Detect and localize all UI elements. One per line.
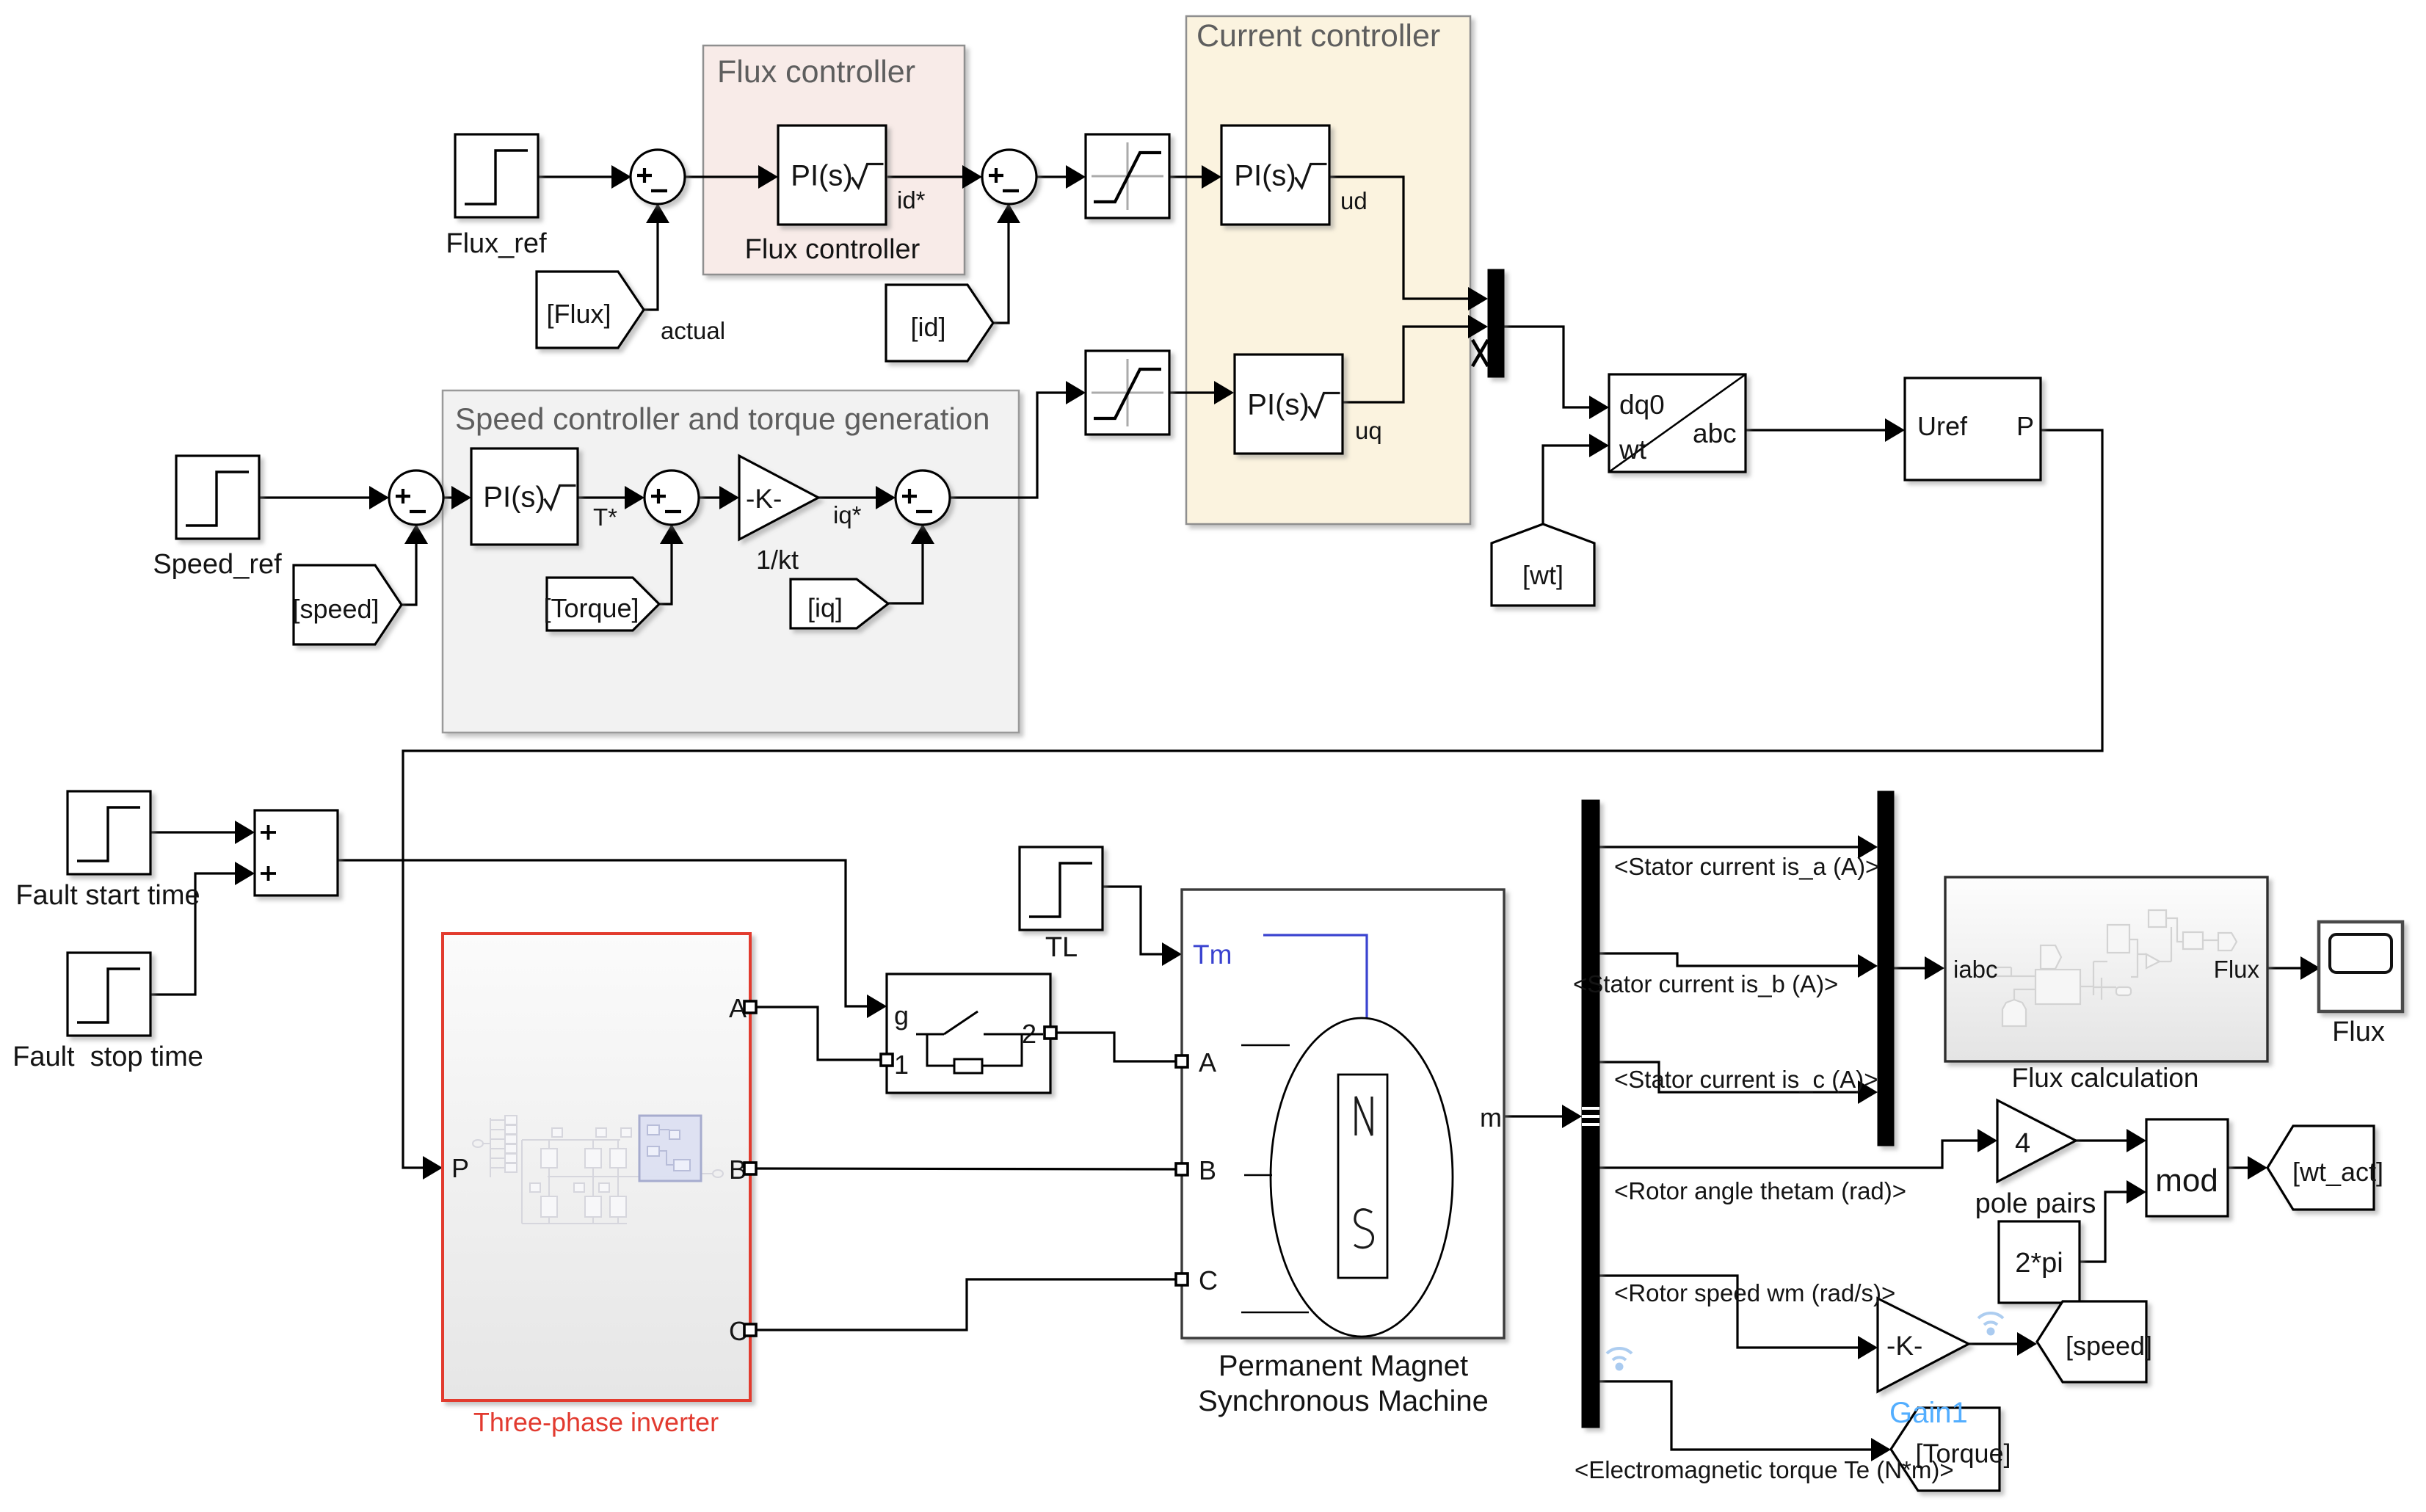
svg-text:id*: id* (897, 186, 926, 214)
svg-text:Flux calculation: Flux calculation (2011, 1063, 2198, 1093)
svg-text:Speed_ref: Speed_ref (153, 549, 282, 580)
svg-text:mod: mod (2155, 1163, 2218, 1199)
svg-text:[iq]: [iq] (807, 593, 843, 623)
svg-text:[wt_act]: [wt_act] (2292, 1157, 2383, 1187)
svg-text:dq0: dq0 (1619, 390, 1665, 420)
svg-text:iq*: iq* (833, 501, 862, 528)
svg-text:PI(s): PI(s) (1247, 389, 1309, 421)
svg-text:-K-: -K- (746, 484, 782, 514)
svg-text:P: P (451, 1153, 469, 1183)
svg-text:<Rotor speed wm (rad/s)>: <Rotor speed wm (rad/s)> (1614, 1279, 1895, 1306)
svg-text:[speed]: [speed] (2066, 1331, 2152, 1361)
svg-text:[Flux]: [Flux] (546, 299, 611, 329)
svg-text:Current controller: Current controller (1196, 18, 1440, 54)
svg-text:T*: T* (593, 504, 617, 531)
svg-text:<Electromagnetic torque Te (N*: <Electromagnetic torque Te (N*m)> (1575, 1456, 1954, 1483)
svg-text:<Stator current is_c (A)>: <Stator current is_c (A)> (1614, 1066, 1878, 1093)
svg-text:[Torque]: [Torque] (543, 593, 639, 623)
svg-text:actual: actual (661, 317, 725, 344)
svg-text:Three-phase inverter: Three-phase inverter (473, 1407, 719, 1437)
svg-text:TL: TL (1045, 932, 1078, 963)
svg-text:PI(s): PI(s) (1234, 160, 1296, 192)
svg-text:iabc: iabc (1953, 956, 1998, 983)
svg-text:Flux_ref: Flux_ref (446, 228, 547, 259)
svg-text:pole pairs: pole pairs (1975, 1188, 2096, 1219)
svg-text:[id]: [id] (910, 312, 945, 342)
svg-text:1: 1 (894, 1050, 909, 1080)
svg-text:abc: abc (1693, 418, 1737, 448)
svg-text:[wt]: [wt] (1522, 560, 1564, 590)
svg-text:Gain1: Gain1 (1889, 1397, 1968, 1429)
svg-text:A: A (1199, 1047, 1216, 1077)
svg-text:2*pi: 2*pi (2015, 1248, 2063, 1279)
svg-text:Synchronous Machine: Synchronous Machine (1198, 1385, 1489, 1417)
svg-text:<Rotor angle thetam (rad)>: <Rotor angle thetam (rad)> (1614, 1177, 1906, 1204)
svg-text:<Stator current is_a (A)>: <Stator current is_a (A)> (1614, 853, 1879, 880)
svg-text:g: g (894, 1000, 909, 1031)
svg-text:4: 4 (2015, 1128, 2030, 1159)
svg-text:C: C (1199, 1265, 1218, 1295)
svg-text:1/kt: 1/kt (756, 545, 799, 575)
svg-text:PI(s): PI(s) (791, 160, 852, 192)
svg-text:uq: uq (1355, 417, 1382, 444)
svg-text:Flux controller: Flux controller (717, 54, 915, 90)
svg-text:Flux controller: Flux controller (745, 234, 920, 265)
svg-text:Fault stop time: Fault stop time (12, 1042, 203, 1072)
svg-text:m: m (1480, 1102, 1502, 1133)
svg-text:Fault start time: Fault start time (15, 880, 200, 911)
svg-text:PI(s): PI(s) (483, 481, 545, 514)
svg-text:Uref: Uref (1917, 411, 1968, 441)
svg-text:wt: wt (1619, 435, 1647, 465)
svg-text:ud: ud (1340, 187, 1368, 214)
svg-text:P: P (2016, 411, 2034, 441)
svg-text:Permanent Magnet: Permanent Magnet (1219, 1350, 1468, 1382)
svg-text:<Stator current is_b (A)>: <Stator current is_b (A)> (1573, 970, 1838, 997)
svg-text:B: B (1199, 1155, 1216, 1185)
svg-text:Speed controller and torque ge: Speed controller and torque generation (455, 401, 990, 436)
svg-text:Flux: Flux (2214, 956, 2260, 983)
svg-text:Flux: Flux (2332, 1017, 2385, 1047)
svg-text:-K-: -K- (1886, 1331, 1922, 1361)
svg-text:[speed]: [speed] (292, 594, 379, 624)
svg-text:Tm: Tm (1193, 939, 1232, 970)
